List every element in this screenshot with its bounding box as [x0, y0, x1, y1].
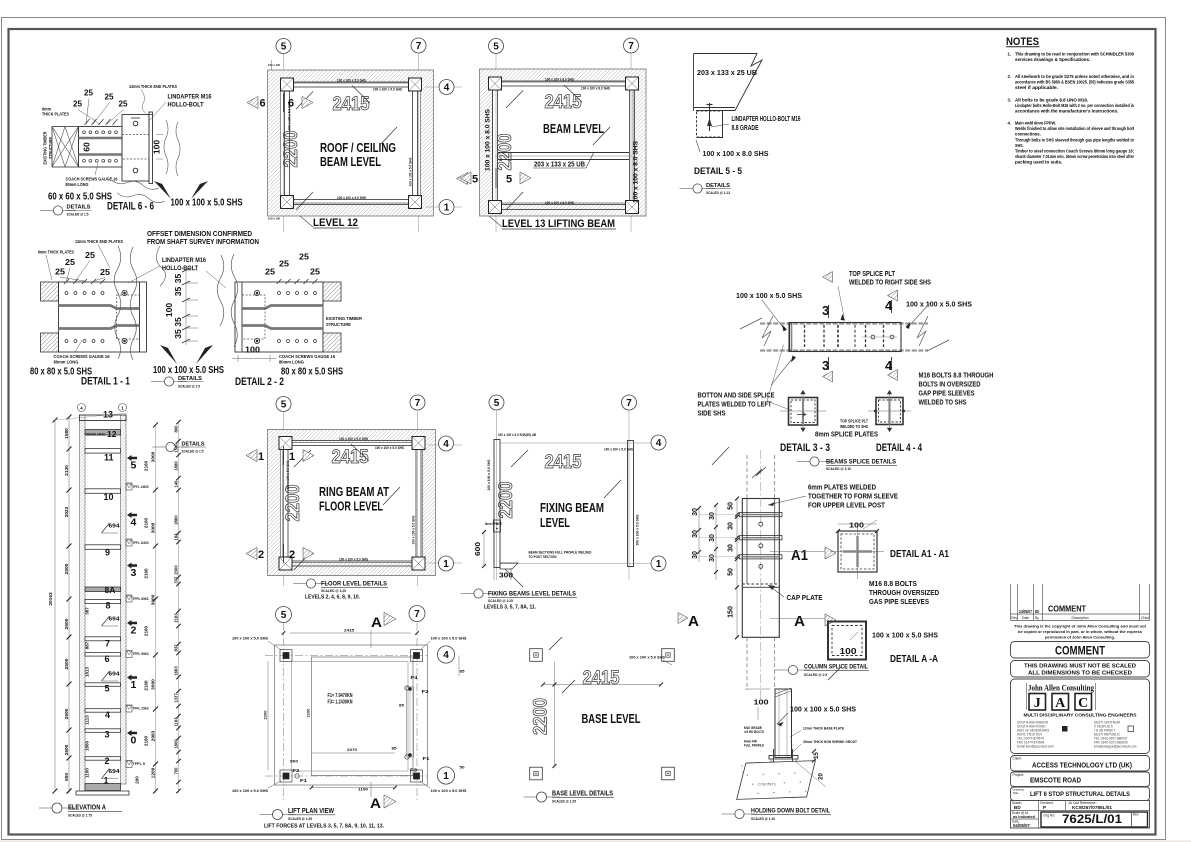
svg-text:85: 85 [392, 746, 398, 751]
svg-text:All steelwork to be grade S275: All steelwork to be grade S275 unless no… [1015, 74, 1134, 79]
svg-text:DETAILS: DETAILS [67, 205, 91, 211]
svg-text:100 x 100 x 8.0 SHS: 100 x 100 x 8.0 SHS [633, 140, 640, 203]
svg-text:4: 4 [885, 298, 893, 313]
svg-text:Chkd: Chkd [1141, 616, 1149, 620]
svg-text:1337: 1337 [174, 693, 179, 703]
svg-text:100 x 100 x 8.0 SHS: 100 x 100 x 8.0 SHS [485, 108, 492, 171]
svg-text:DETAIL A -A: DETAIL A -A [890, 654, 938, 665]
svg-text:25: 25 [119, 100, 129, 109]
svg-text:SCALED @ 1:5: SCALED @ 1:5 [178, 384, 201, 389]
lift plan inner rect [312, 657, 414, 776]
svg-text:Welds finished to allow site i: Welds finished to allow site installatio… [1015, 126, 1134, 131]
svg-text:100 x 100: 100 x 100 [268, 217, 280, 221]
svg-text:35: 35 [173, 329, 183, 339]
svg-text:TFFL 0: TFFL 0 [133, 761, 146, 766]
svg-text:0: 0 [131, 735, 137, 747]
svg-text:35: 35 [173, 274, 183, 284]
svg-text:20: 20 [819, 773, 825, 780]
svg-text:BOTTON AND SIDE SPLICE: BOTTON AND SIDE SPLICE [698, 393, 775, 400]
svg-text:DETAIL 2 - 2: DETAIL 2 - 2 [235, 376, 284, 388]
svg-text:Date: Date [1022, 616, 1029, 620]
svg-text:694: 694 [109, 769, 120, 775]
lift plan right dims [458, 656, 460, 677]
column splice left dims [736, 499, 738, 638]
svg-text:100 x 100 x 5.0 SHS: 100 x 100 x 5.0 SHS [629, 655, 665, 660]
svg-text:Rev: Rev [1011, 616, 1017, 620]
svg-text:100 x 100 x 5.0 SHS(55) UB: 100 x 100 x 5.0 SHS(55) UB [498, 433, 537, 437]
svg-text:DETAIL A1 - A1: DETAIL A1 - A1 [890, 549, 949, 560]
svg-text:WELDED TO RIGHT SIDE SHS: WELDED TO RIGHT SIDE SHS [849, 280, 931, 287]
svg-text:COACH SCREWS GAUGE 16: COACH SCREWS GAUGE 16 [54, 354, 111, 359]
svg-text:25: 25 [265, 267, 275, 277]
svg-text:5: 5 [281, 400, 287, 411]
svg-text:All bolts to be grade 8.8 UNO: All bolts to be grade 8.8 UNO M16. [1015, 98, 1088, 103]
splice bolts [871, 335, 875, 339]
svg-text:Project:: Project: [1013, 773, 1025, 777]
svg-text:SCALED @ 1:25: SCALED @ 1:25 [321, 588, 347, 593]
svg-text:Client: Client [1013, 757, 1022, 761]
svg-text:500: 500 [290, 759, 299, 764]
svg-text:P: P [1043, 805, 1046, 810]
svg-text:2200: 2200 [281, 131, 302, 168]
svg-text:J: J [1034, 696, 1041, 711]
svg-text:BD: BD [1035, 609, 1039, 614]
fixing beam left post [494, 440, 500, 568]
svg-text:4: 4 [444, 83, 450, 94]
grid line 4 horizontal [425, 86, 462, 88]
svg-text:150: 150 [728, 606, 735, 618]
svg-text:DETAIL 1 - 1: DETAIL 1 - 1 [81, 376, 130, 388]
svg-text:1113: 1113 [85, 715, 90, 725]
svg-text:50: 50 [728, 502, 735, 510]
svg-text:SCALED @ 1:75: SCALED @ 1:75 [68, 813, 93, 818]
svg-text:RING BEAM AT: RING BEAM AT [319, 485, 389, 499]
svg-text:5: 5 [105, 684, 110, 694]
svg-text:TOP SPLICE PLT: TOP SPLICE PLT [849, 271, 896, 278]
svg-text:11: 11 [104, 453, 114, 463]
svg-text:85: 85 [460, 669, 466, 674]
svg-text:F2: F2 [422, 689, 430, 694]
svg-text:2500: 2500 [64, 708, 70, 719]
svg-text:8A: 8A [105, 585, 116, 595]
splice beam break symbols [762, 316, 773, 346]
svg-text:WELDED TO SHS: WELDED TO SHS [840, 424, 868, 429]
svg-text:100 x 100 x 5.0 SHS: 100 x 100 x 5.0 SHS [636, 514, 640, 546]
svg-text:2415: 2415 [332, 447, 369, 468]
title block: do-not-scale box [1011, 661, 1150, 678]
svg-text:A: A [1055, 696, 1066, 711]
svg-text:9: 9 [105, 548, 110, 558]
svg-text:F2: F2 [293, 768, 301, 773]
svg-text:2500: 2500 [64, 658, 70, 669]
svg-text:shank diameter 7.01mm min. 35m: shank diameter 7.01mm min. 35mm screw pe… [1015, 154, 1134, 159]
svg-text:8: 8 [106, 601, 111, 611]
svg-text:TOP SPLICE PLT: TOP SPLICE PLT [840, 419, 868, 424]
splice leader arrows [782, 325, 787, 332]
svg-text:800: 800 [174, 425, 179, 433]
splice dashed plates [804, 325, 806, 349]
detail 2-2 timber hatch blocks [323, 282, 341, 301]
svg-text:100 x 100 x 8.0 SHS: 100 x 100 x 8.0 SHS [545, 201, 574, 205]
svg-text:2200: 2200 [531, 698, 552, 735]
ring beam grid bubble 4 [428, 444, 462, 446]
svg-text:HOLDING DOWN BOLT DETAIL: HOLDING DOWN BOLT DETAIL [751, 809, 830, 815]
fixing beam caption [461, 593, 497, 595]
svg-text:10: 10 [104, 492, 114, 502]
svg-text:25: 25 [105, 93, 115, 102]
svg-text:100 x 100 x 5.0 SHS: 100 x 100 x 5.0 SHS [412, 516, 416, 545]
column cap plate dashed [742, 583, 779, 585]
svg-text:A: A [371, 614, 382, 630]
svg-text:4: 4 [105, 710, 110, 720]
svg-text:25: 25 [85, 250, 95, 260]
ring beam section markers 1 [246, 449, 257, 461]
svg-text:C: C [1078, 696, 1088, 711]
column inner post edges [746, 499, 748, 585]
svg-text:CAP PLATE: CAP PLATE [787, 593, 823, 602]
level 13 lifting beam 203x133x25UB [498, 152, 629, 154]
svg-text:ACCESS TECHNOLOGY LTD (UK): ACCESS TECHNOLOGY LTD (UK) [1032, 761, 1133, 770]
svg-text:TFFL 11060: TFFL 11060 [133, 540, 150, 545]
splice section marks 4 [891, 300, 893, 313]
svg-text:100 x 100 x 5.0 SHS: 100 x 100 x 5.0 SHS [409, 158, 413, 187]
svg-text:3000: 3000 [151, 594, 157, 605]
svg-text:CONCRETE: CONCRETE [758, 783, 777, 787]
svg-text:SCALED @ 1:5: SCALED @ 1:5 [804, 672, 828, 677]
svg-text:100 x 100 x 5.0 SHS: 100 x 100 x 5.0 SHS [373, 88, 402, 92]
base level caption [524, 796, 560, 798]
detail 6-6 bubble [40, 210, 76, 212]
svg-text:6mm THICK PLATES: 6mm THICK PLATES [38, 250, 74, 255]
grid bubble 4 (level 12 plan) [439, 80, 454, 95]
svg-text:100 x 100 x 5.0 SHS: 100 x 100 x 5.0 SHS [232, 788, 268, 793]
svg-text:7: 7 [414, 609, 420, 620]
svg-text:EMSCOTE ROAD: EMSCOTE ROAD [1030, 776, 1081, 785]
title block: drawing number cell [1041, 812, 1148, 827]
svg-text:700: 700 [174, 767, 179, 775]
svg-text:12mm THICK END PLATES: 12mm THICK END PLATES [129, 84, 177, 89]
elevation bottom ticks [67, 789, 72, 794]
svg-text:Title:: Title: [1013, 791, 1020, 795]
details 1:5 bubble (details 1-1/2-2) [151, 381, 187, 383]
svg-text:5: 5 [493, 42, 499, 53]
elevation total dim 20163 [54, 420, 56, 791]
svg-text:100: 100 [840, 646, 857, 656]
svg-text:25: 25 [310, 267, 320, 277]
svg-text:A: A [794, 613, 805, 630]
svg-text:80mm LONG: 80mm LONG [54, 360, 79, 365]
svg-text:7625/L/01: 7625/L/01 [1062, 812, 1122, 826]
title block: scale and date cells [1038, 811, 1040, 829]
svg-text:1580: 1580 [64, 428, 70, 439]
svg-text:100 x 100 x 5.0 SHS: 100 x 100 x 5.0 SHS [339, 558, 368, 562]
svg-text:LEVEL 12: LEVEL 12 [313, 217, 358, 229]
beams splice caption [797, 461, 833, 463]
svg-text:BASE LEVEL: BASE LEVEL [582, 712, 641, 726]
svg-text:2070: 2070 [347, 747, 358, 752]
svg-text:2: 2 [131, 625, 137, 637]
svg-text:2: 2 [258, 549, 264, 561]
svg-text:F1: F1 [423, 756, 431, 761]
level 12 plan walls [268, 70, 434, 216]
section marker right of plan [457, 172, 468, 184]
svg-text:COACH SCREWS GAUGE 16: COACH SCREWS GAUGE 16 [279, 354, 336, 359]
svg-text:A1: A1 [791, 547, 808, 564]
svg-text:5: 5 [472, 174, 478, 186]
svg-text:2200: 2200 [496, 482, 517, 519]
svg-text:5: 5 [131, 460, 137, 472]
lift plan corner posts [280, 650, 292, 662]
ring beam leader strokes [351, 444, 369, 461]
svg-text:COMMENT: COMMENT [1055, 646, 1105, 658]
svg-text:1.: 1. [1008, 52, 1012, 57]
base level corner marks [530, 649, 543, 662]
title block: project box [1011, 772, 1150, 787]
splice leader lines [838, 286, 844, 317]
svg-text:SCALED @ 1:25: SCALED @ 1:25 [488, 598, 514, 603]
detail 6-6 lower break [109, 177, 167, 203]
svg-text:100 x 100 x 8.0 SHS: 100 x 100 x 8.0 SHS [703, 149, 769, 158]
base level dim lines [543, 684, 661, 686]
svg-text:3.: 3. [1008, 98, 1012, 103]
svg-text:2160: 2160 [144, 568, 149, 579]
fixing beam splice box [494, 520, 501, 532]
hd caption [722, 813, 758, 815]
column lower post dashed [746, 637, 748, 690]
svg-text:2200: 2200 [263, 710, 268, 720]
svg-text:CEILING LEVEL: CEILING LEVEL [86, 433, 106, 437]
svg-text:STRUCTURE: STRUCTURE [326, 322, 351, 327]
detail 2-2 body [235, 282, 323, 352]
level 13 leader strokes [564, 85, 582, 102]
svg-text:80 x 80 x 5.0 SHS: 80 x 80 x 5.0 SHS [281, 366, 343, 378]
svg-text:50: 50 [728, 568, 735, 576]
section marker 5 left of level13 plan [460, 172, 471, 184]
svg-text:35: 35 [173, 287, 183, 297]
elevation title [39, 807, 75, 809]
svg-text:387: 387 [85, 607, 90, 615]
splice joint plate [789, 323, 791, 352]
svg-text:2160: 2160 [144, 625, 149, 636]
title block: drawing title box [1011, 787, 1150, 801]
ring beam grid bubble 1 [428, 562, 462, 564]
detail 6-6 end plate column [122, 115, 149, 182]
svg-text:887: 887 [85, 641, 90, 649]
svg-text:1663: 1663 [174, 666, 179, 676]
svg-text:2415: 2415 [344, 628, 355, 633]
svg-text:GAS PIPE SLEEVES: GAS PIPE SLEEVES [869, 597, 929, 606]
svg-text:2100: 2100 [306, 708, 311, 718]
svg-text:LIFT 6 STOP STRUCTURAL DETAILS: LIFT 6 STOP STRUCTURAL DETAILS [1030, 791, 1131, 798]
svg-text:2130: 2130 [64, 465, 70, 476]
svg-text:SCALED @ 1:25: SCALED @ 1:25 [552, 799, 577, 804]
svg-text:LEVELS 3, 5, 7, 8A, 11.: LEVELS 3, 5, 7, 8A, 11. [484, 605, 536, 611]
svg-text:2415: 2415 [545, 452, 582, 473]
svg-text:25: 25 [55, 267, 65, 277]
svg-text:100 x 100: 100 x 100 [268, 63, 280, 67]
section triangle right of fixing beam [683, 469, 685, 471]
svg-text:A: A [688, 613, 699, 630]
svg-text:8.8 GRADE: 8.8 GRADE [732, 125, 759, 132]
offset label leader left [156, 246, 165, 286]
svg-text:2160: 2160 [144, 680, 149, 691]
svg-text:694: 694 [109, 617, 120, 623]
svg-text:1880: 1880 [174, 461, 179, 471]
grid bubble 7 (level 12 plan) [411, 38, 426, 53]
svg-text:7: 7 [626, 398, 632, 409]
svg-text:TFFL 8963: TFFL 8963 [133, 596, 150, 601]
svg-text:BEAM SECTIONS FULL PROFILE WEL: BEAM SECTIONS FULL PROFILE WELDED [529, 551, 592, 555]
lift plan grid bubbles right [437, 646, 454, 663]
svg-text:100 x 100 x 8.0 SHS: 100 x 100 x 8.0 SHS [545, 78, 574, 82]
svg-text:TFFL 2963: TFFL 2963 [133, 706, 150, 711]
svg-text:Rev.: Rev. [1133, 813, 1139, 817]
svg-text:be copied or reproduced in par: be copied or reproduced in part, or in w… [1018, 629, 1143, 634]
svg-text:100 x 100 x 5.0 SHS: 100 x 100 x 5.0 SHS [337, 196, 366, 200]
svg-text:THROUGH OVERSIZED: THROUGH OVERSIZED [869, 588, 939, 597]
svg-text:1: 1 [443, 559, 449, 570]
svg-text:3: 3 [822, 303, 829, 318]
svg-text:5: 5 [494, 398, 500, 409]
svg-text:F3: F3 [410, 767, 418, 772]
svg-text:100: 100 [754, 698, 769, 707]
svg-text:1: 1 [443, 771, 449, 782]
svg-text:2160: 2160 [144, 460, 149, 471]
svg-text:2600: 2600 [64, 618, 70, 629]
svg-text:1200: 1200 [151, 767, 157, 778]
svg-text:Lindapter bolts Hollo-Bolt M16: Lindapter bolts Hollo-Bolt M16 with 2 no… [1015, 103, 1134, 108]
svg-text:100: 100 [152, 140, 162, 154]
fixing beam grid line 4 [500, 442, 652, 444]
elevation details bubble top right [153, 446, 189, 448]
svg-text:25: 25 [65, 257, 75, 267]
svg-text:2500: 2500 [64, 744, 70, 755]
svg-text:100 x 100 x 5.0 SHS: 100 x 100 x 5.0 SHS [736, 291, 802, 300]
svg-text:25: 25 [84, 89, 94, 98]
column centerline [760, 450, 762, 700]
fixing beam grid bubbles [489, 395, 504, 410]
detail A-A square [828, 622, 866, 660]
svg-text:LIFT FORCES AT LEVELS 3, 5, 7,: LIFT FORCES AT LEVELS 3, 5, 7, 8A, 9, 10… [264, 824, 384, 830]
elevation TFFL labels [127, 484, 132, 488]
svg-text:30: 30 [728, 522, 735, 530]
svg-text:2.: 2. [1008, 74, 1012, 79]
svg-text:3: 3 [131, 567, 137, 579]
svg-text:LEVEL: LEVEL [540, 516, 570, 530]
svg-text:F1: F1 [300, 778, 308, 783]
svg-text:30mm THICK NON SHRINK GROUT: 30mm THICK NON SHRINK GROUT [803, 740, 858, 744]
svg-text:7: 7 [628, 41, 634, 52]
svg-text:30: 30 [728, 544, 735, 552]
elevation level arrows and numbers [127, 455, 137, 461]
splice section triangles [823, 272, 833, 283]
elevation right dim col 2 [178, 422, 180, 793]
lift plan outer rect [275, 645, 428, 785]
detail 3-3 section square [789, 398, 818, 426]
svg-text:1: 1 [444, 203, 450, 214]
svg-text:7: 7 [415, 398, 421, 409]
svg-text:2160: 2160 [144, 517, 149, 528]
svg-text:BEAM LEVEL: BEAM LEVEL [543, 122, 604, 136]
svg-text:100 x 100 x 5.0 SHS: 100 x 100 x 5.0 SHS [337, 79, 366, 83]
svg-text:ELEVATION A: ELEVATION A [68, 803, 106, 812]
svg-text:30: 30 [709, 512, 716, 520]
svg-text:steel if applicable.: steel if applicable. [1015, 85, 1058, 90]
svg-text:LINDAPTER M16: LINDAPTER M16 [168, 94, 212, 101]
svg-text:2163: 2163 [174, 613, 179, 623]
svg-text:LINDAPTER HOLLO-BOLT M16: LINDAPTER HOLLO-BOLT M16 [732, 116, 801, 123]
svg-text:6: 6 [288, 98, 294, 110]
ring beam plan walls [268, 430, 436, 576]
svg-text:694: 694 [109, 524, 120, 530]
svg-text:TOGETHER TO FORM SLEEVE: TOGETHER TO FORM SLEEVE [808, 492, 898, 501]
svg-text:100: 100 [849, 521, 864, 530]
svg-text:4: 4 [443, 650, 449, 661]
svg-text:04/05/07: 04/05/07 [1013, 823, 1031, 828]
svg-text:LIFT PLAN VIEW: LIFT PLAN VIEW [288, 806, 335, 815]
svg-text:100 x 100 x 8.0 SHS: 100 x 100 x 8.0 SHS [581, 87, 610, 91]
svg-text:60 x 60 x 5.0 SHS: 60 x 60 x 5.0 SHS [48, 191, 112, 203]
svg-text:100 x 100 x 5.0 SHS: 100 x 100 x 5.0 SHS [790, 705, 856, 714]
svg-text:FOR UPPER LEVEL POST: FOR UPPER LEVEL POST [808, 501, 885, 510]
svg-text:SCALED @ 1:13: SCALED @ 1:13 [706, 190, 731, 195]
A section marker left [678, 613, 688, 624]
svg-text:Main weld 6mm FPPW.: Main weld 6mm FPPW. [1015, 121, 1056, 126]
svg-text:John Allen Consulting: John Allen Consulting [1028, 684, 1095, 693]
svg-text:6: 6 [105, 654, 110, 664]
title block: revision table [1010, 584, 1012, 621]
base level corner slashes [549, 637, 562, 650]
svg-text:200: 200 [135, 776, 140, 784]
svg-text:4.6 HD BOLTS: 4.6 HD BOLTS [744, 730, 765, 734]
column sleeve bolts [759, 522, 763, 526]
svg-text:694: 694 [109, 672, 120, 678]
svg-text:FULL PROFILE: FULL PROFILE [744, 744, 765, 748]
title block: comment box [1011, 642, 1150, 659]
svg-text:3: 3 [822, 358, 829, 373]
detail 1-1 timber hatch blocks [41, 282, 59, 301]
svg-text:2: 2 [289, 549, 295, 561]
svg-text:2415: 2415 [583, 668, 620, 689]
svg-text:GAP PIPE SLEEVES: GAP PIPE SLEEVES [919, 391, 975, 398]
svg-text:100 x 100 x 5.0 SHS: 100 x 100 x 5.0 SHS [604, 448, 633, 452]
svg-text:4: 4 [443, 439, 449, 450]
level 13 plan beams [493, 81, 635, 210]
grid bubble 1 (level 12 plan) [439, 200, 454, 215]
svg-text:100 x 100 x 5.0 SHS: 100 x 100 x 5.0 SHS [431, 788, 467, 793]
svg-text:SIDE SHS: SIDE SHS [698, 411, 726, 418]
svg-text:LEVELS 2, 4, 6, 8, 9, 10.: LEVELS 2, 4, 6, 8, 9, 10. [305, 595, 360, 601]
svg-text:M16 BOLTS 8.8 THROUGH: M16 BOLTS 8.8 THROUGH [919, 373, 994, 380]
svg-text:30: 30 [709, 554, 716, 562]
svg-text:permission of John Allen Consu: permission of John Allen Consulting. [1045, 635, 1115, 640]
svg-text:OFFSET DIMENSION CONFIRMED: OFFSET DIMENSION CONFIRMED [147, 231, 252, 238]
svg-text:LEVEL 13 LIFTING BEAM: LEVEL 13 LIFTING BEAM [502, 218, 615, 230]
svg-text:F1= 7.9470KN: F1= 7.9470KN [328, 693, 353, 699]
svg-text:24/05/07: 24/05/07 [1019, 609, 1033, 614]
svg-text:Description: Description [1072, 616, 1089, 620]
svg-text:SCALED @ 1:10: SCALED @ 1:10 [751, 816, 776, 821]
svg-text:1: 1 [258, 451, 264, 463]
svg-text:4: 4 [656, 438, 662, 449]
svg-text:THICK PLATES: THICK PLATES [42, 112, 69, 117]
detail 6-6 bolt rows [83, 131, 86, 134]
svg-text:EXISTING TIMBER: EXISTING TIMBER [43, 132, 48, 165]
title block: client box [1011, 756, 1150, 772]
svg-text:M16 8.8 BOLTS: M16 8.8 BOLTS [869, 579, 917, 588]
svg-text:140: 140 [174, 480, 179, 488]
svg-text:THIS DRAWING MUST NOT BE SCALE: THIS DRAWING MUST NOT BE SCALED [1024, 664, 1136, 670]
